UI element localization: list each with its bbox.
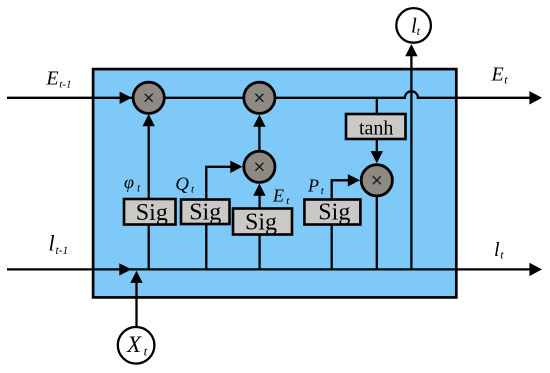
gate box Sig4	[304, 200, 360, 226]
arrowhead: into C4 left	[348, 174, 360, 186]
gate box Sig2	[181, 199, 230, 225]
svg-text:l: l	[49, 231, 55, 256]
label E_t (right)	[491, 64, 509, 87]
arrowhead: X_t riser into l line	[130, 271, 142, 283]
label E_t (mid)	[272, 186, 290, 208]
wire: branch through Sig2, turning right to multiplier C3	[206, 167, 232, 270]
arrowhead: into C4 top	[371, 151, 383, 163]
arrowhead: l line right end (l_t output)	[529, 263, 542, 276]
svg-text:tanh: tanh	[359, 118, 393, 140]
arrowhead: into C3 left	[230, 161, 242, 173]
wire: l line (bottom horizontal)	[7, 268, 532, 270]
wire: branch through Sig3 up to multiplier C3	[258, 195, 260, 270]
svg-text:φ: φ	[124, 172, 134, 192]
svg-text:t: t	[500, 248, 504, 262]
arrowhead: E line right end (E_t output)	[529, 91, 542, 104]
arrowhead: into l_t circle bottom	[405, 44, 417, 56]
cell body (blue box)	[93, 69, 456, 297]
svg-text:P: P	[307, 176, 319, 196]
arrowhead: into C3 bottom	[253, 184, 265, 196]
arrowhead: l line into X_t junction	[119, 263, 131, 275]
wire: tanh box down to multiplier C4	[376, 139, 378, 153]
svg-text:Sig: Sig	[318, 200, 350, 226]
svg-text:X: X	[126, 332, 142, 357]
svg-text:Sig: Sig	[189, 199, 221, 225]
multiplier C3	[244, 151, 275, 182]
wire: multiplier C4 down to l line	[376, 197, 378, 269]
wire: X_t riser	[135, 280, 137, 327]
gate box Sig1	[124, 199, 176, 226]
label l_{t-1}	[49, 231, 69, 257]
gate box Sig3	[233, 209, 292, 236]
svg-text:t: t	[504, 72, 508, 86]
svg-text:l: l	[494, 239, 500, 261]
wire: branch through Sig4, turning right to multiplier C4	[332, 180, 350, 269]
label l_t (right)	[494, 239, 504, 262]
svg-text:E: E	[45, 68, 58, 90]
svg-text:t: t	[144, 344, 148, 359]
svg-text:E: E	[272, 186, 284, 206]
multiplier C2	[244, 82, 275, 113]
svg-text:Sig: Sig	[245, 209, 277, 235]
arrowhead: into C2 bottom	[253, 115, 265, 127]
label Q_t	[175, 174, 195, 196]
wire: l_t riser from l line up to l_t circle (under E-line hop)	[410, 56, 412, 269]
multiplier C4	[361, 165, 392, 196]
svg-text:Q: Q	[175, 174, 189, 195]
node circle l_t (top output)	[396, 8, 431, 43]
svg-text:t-1: t-1	[56, 245, 69, 257]
svg-text:E: E	[491, 64, 504, 86]
label E_{t-1}	[45, 68, 71, 91]
wire: E line down into tanh box	[376, 98, 378, 115]
wire: E line (top horizontal with hop over l_t riser)	[7, 91, 532, 97]
wire: branch through Sig1 up to multiplier C1	[148, 125, 150, 269]
multiplier C1	[133, 82, 164, 113]
arrowhead: into C1 bottom	[143, 114, 155, 126]
label phi_t	[124, 172, 141, 195]
tanh box	[346, 114, 406, 140]
svg-text:Sig: Sig	[136, 200, 168, 226]
wire: multiplier C3 up to multiplier C2	[258, 126, 260, 150]
svg-text:t-1: t-1	[59, 78, 71, 90]
label P_t	[307, 176, 325, 198]
node circle X_t (bottom input)	[118, 327, 155, 364]
arrowhead: E line into multiplier C1	[120, 92, 132, 104]
